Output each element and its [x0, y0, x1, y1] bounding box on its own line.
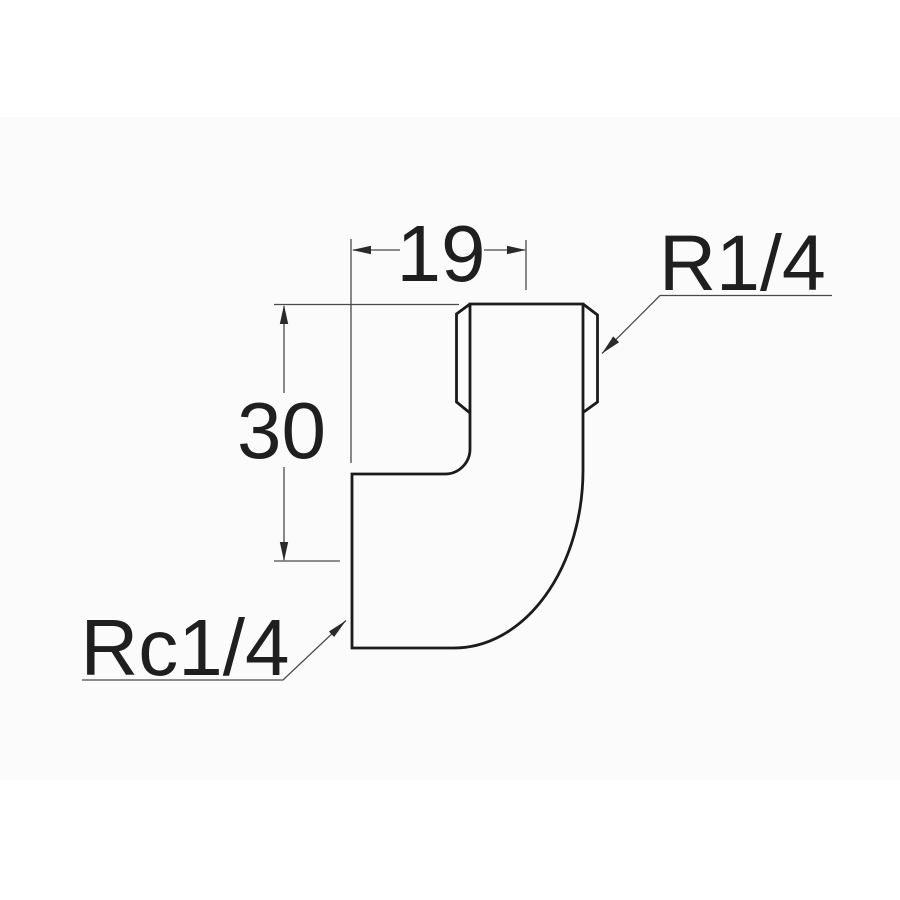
dim 19 arrow right: [507, 246, 526, 254]
dim 19 line right segment: [484, 249, 525, 251]
dim 30 extension line top: [274, 304, 459, 306]
dim 30 extension line bottom: [274, 560, 340, 562]
dim 19 arrow left: [352, 246, 371, 254]
svg-text:19: 19: [397, 209, 486, 298]
leader Rc1/4 line: [82, 621, 346, 681]
thread chamfer right: [583, 304, 598, 413]
thread chamfer left: [457, 304, 471, 413]
leader R1/4 arrow: [602, 336, 619, 353]
dim 30 arrow up: [280, 305, 288, 324]
svg-text:R1/4: R1/4: [659, 218, 826, 307]
photo band: [0, 117, 900, 780]
dim 19 extension line left: [350, 239, 352, 463]
dim 19 line left segment: [353, 249, 400, 251]
leader R1/4 line: [602, 296, 832, 354]
dim 30 arrow down: [280, 542, 288, 561]
dim 30 line top segment: [283, 306, 285, 393]
dim 19 extension line right: [525, 240, 527, 290]
dim 30 line bottom segment: [283, 467, 285, 560]
leader Rc1/4 arrow: [329, 621, 346, 638]
svg-text:30: 30: [237, 386, 326, 475]
svg-text:Rc1/4: Rc1/4: [81, 603, 290, 692]
elbow body outline: [352, 304, 583, 648]
